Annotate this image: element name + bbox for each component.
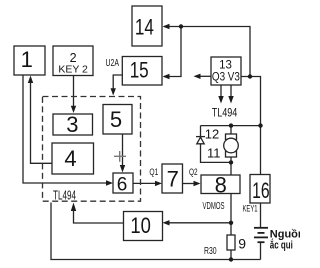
svg-text:ắc qui: ắc qui [270, 239, 293, 252]
svg-text:13: 13 [219, 60, 232, 72]
svg-text:6: 6 [117, 174, 128, 195]
svg-text:15: 15 [130, 57, 149, 82]
svg-text:Q1: Q1 [149, 167, 158, 178]
svg-text:5: 5 [110, 107, 122, 132]
svg-text:4: 4 [64, 146, 76, 171]
svg-text:14: 14 [135, 15, 154, 40]
svg-text:10: 10 [130, 213, 151, 238]
svg-text:16: 16 [252, 178, 270, 203]
svg-text:9: 9 [238, 235, 246, 251]
svg-text:Q3 V3: Q3 V3 [212, 71, 240, 83]
svg-text:7: 7 [167, 166, 179, 191]
svg-text:VDMOS: VDMOS [203, 201, 225, 212]
svg-text:3: 3 [66, 112, 78, 137]
svg-text:TL494: TL494 [53, 189, 76, 203]
svg-text:Q2: Q2 [189, 167, 198, 178]
svg-text:R30: R30 [204, 245, 217, 257]
svg-text:U2A: U2A [106, 58, 120, 69]
svg-text:8: 8 [215, 172, 227, 197]
svg-text:TL494: TL494 [212, 105, 238, 119]
svg-text:1: 1 [21, 47, 33, 72]
svg-text:11: 11 [207, 146, 221, 161]
svg-text:12: 12 [205, 126, 219, 141]
svg-text:KEY 2: KEY 2 [58, 63, 88, 75]
svg-text:KEY1: KEY1 [243, 204, 258, 215]
